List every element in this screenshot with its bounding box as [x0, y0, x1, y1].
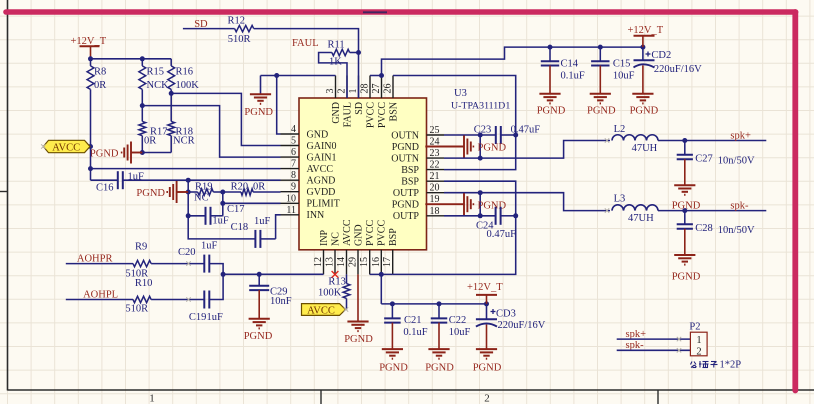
svg-text:PGND: PGND: [244, 107, 273, 118]
svg-text:1: 1: [149, 393, 155, 404]
junction pin4 branch: [274, 73, 279, 78]
svg-text:10n/50V: 10n/50V: [718, 225, 755, 236]
svg-text:L2: L2: [614, 124, 626, 135]
svg-text:1: 1: [348, 89, 359, 94]
svg-text:100K: 100K: [318, 288, 342, 299]
svg-text:9: 9: [291, 182, 296, 193]
value 0.47uF (C23): [511, 125, 541, 136]
wire C23 right: [501, 134, 516, 136]
svg-text:510R: 510R: [228, 34, 251, 45]
svg-text:PVCC: PVCC: [365, 102, 376, 128]
svg-text:PVCC: PVCC: [377, 102, 388, 128]
capacitor C20: [204, 255, 209, 273]
svg-text:AVCC: AVCC: [52, 143, 80, 154]
op-amp/amplifier IC U3 body: [299, 98, 427, 250]
capacitor C24: [496, 207, 501, 225]
label PGND (INN net): [136, 188, 165, 199]
junction OUTN-C23 left: [478, 133, 483, 138]
svg-text:C14: C14: [561, 58, 579, 69]
wire FAUL to pin 2: [319, 53, 347, 99]
svg-text:PGND: PGND: [473, 363, 502, 374]
wire BSN: [393, 76, 516, 170]
junction C21: [390, 301, 395, 306]
label CD3: [496, 309, 516, 320]
no-connect X on pin 13: [332, 271, 339, 278]
junction R17 bottom: [140, 150, 145, 155]
svg-text:C18: C18: [231, 222, 249, 233]
svg-text:R16: R16: [176, 67, 194, 78]
svg-text:+12V_T: +12V_T: [467, 282, 503, 293]
svg-text:0R: 0R: [144, 136, 156, 147]
IC U3 top pins 3,2,1,28,27,26 (stubs, numbers, names): [325, 76, 399, 129]
wire PVCC riser: [380, 274, 382, 304]
svg-text:AGND: AGND: [307, 176, 336, 187]
label PGND (R17 net): [90, 148, 119, 159]
net label FAUL: [292, 38, 319, 49]
svg-text:CD2: CD2: [651, 50, 671, 61]
capacitor C14: [541, 47, 559, 65]
value 10uF (C15): [613, 70, 635, 81]
resistor R10: [133, 296, 204, 302]
wire C16 to pin 8: [123, 179, 281, 181]
svg-text:R15: R15: [147, 67, 165, 78]
value 47UH (L2): [632, 143, 658, 154]
svg-text:21: 21: [430, 171, 440, 182]
wire INN column: [188, 180, 255, 239]
svg-text:BSP: BSP: [388, 228, 399, 246]
svg-text:GND: GND: [307, 129, 329, 140]
junction C28 tap: [682, 208, 687, 213]
wire OUTP pin18 to C24: [444, 215, 496, 217]
capacitor C27: [677, 141, 693, 160]
svg-text:C16: C16: [96, 182, 114, 193]
junction R16 bottom: [169, 91, 174, 96]
wire R11 right to SD net: [350, 52, 359, 54]
svg-text:5: 5: [291, 136, 296, 147]
ground PGND sideways (pin 24): [425, 136, 474, 158]
value 0R (R8): [94, 80, 106, 91]
wire OUTN pin 25 to C23: [444, 134, 496, 136]
label PGND (pin 19): [478, 200, 507, 211]
wire to pin 10: [223, 202, 281, 204]
svg-text:0.1uF: 0.1uF: [561, 70, 585, 81]
value 0.1uF (C21): [403, 327, 427, 338]
svg-text:SD: SD: [354, 102, 365, 115]
svg-text:spk-: spk-: [730, 200, 749, 211]
svg-text:OUTN: OUTN: [391, 130, 419, 141]
svg-text:C20: C20: [178, 247, 196, 258]
capacitor C28: [677, 211, 693, 229]
value 1uF (C17): [212, 215, 229, 226]
resistor R13: [343, 274, 350, 309]
resistor R20: [223, 189, 281, 195]
svg-text:0R: 0R: [94, 80, 106, 91]
label PGND (CD2): [630, 106, 659, 117]
label PGND (C22): [425, 363, 454, 374]
label PGND (pin 24): [478, 143, 507, 154]
wire C20 to input node: [209, 264, 223, 275]
value NCK (R15): [147, 80, 170, 91]
wire GAIN0 net to pin 5: [171, 93, 280, 145]
svg-text:10: 10: [286, 193, 296, 204]
value 220uF/16V (CD2): [654, 64, 702, 75]
wire SD left segment: [183, 28, 235, 30]
resistor R17: [139, 121, 146, 152]
resistor R11: [332, 49, 350, 55]
junction C27 tap: [682, 138, 687, 143]
svg-text:1uF: 1uF: [212, 215, 229, 226]
svg-text:PGND: PGND: [478, 200, 507, 211]
connector P2 body: [690, 332, 707, 356]
label R16: [176, 67, 194, 78]
IC U3 left pins 4-11 (stubs, numbers, names): [281, 124, 340, 221]
svg-text:7: 7: [291, 159, 296, 170]
label C28: [695, 223, 713, 234]
svg-text:NCR: NCR: [173, 136, 195, 147]
net label SD: [194, 19, 208, 30]
svg-text:U3: U3: [454, 88, 467, 99]
label C29: [270, 287, 288, 298]
label PGND (C28): [672, 272, 701, 283]
label PGND (pin 29): [344, 334, 373, 345]
svg-text:20: 20: [430, 183, 440, 194]
svg-text:13: 13: [325, 257, 336, 267]
capacitor CD3 (electrolytic): [476, 304, 497, 327]
off-grid mark (R10-C19): [186, 297, 190, 301]
svg-text:47UH: 47UH: [632, 143, 658, 154]
resistor R15: [139, 59, 146, 122]
svg-text:C21: C21: [404, 315, 422, 326]
value 47UH (L3): [628, 213, 654, 224]
IC U3 designator: [454, 88, 467, 99]
junction C23-BSN: [513, 133, 518, 138]
capacitor C18: [255, 230, 275, 248]
svg-text:OUTN: OUTN: [391, 154, 419, 165]
ground PGND (CD2): [632, 65, 653, 103]
label PGND (CD3): [473, 363, 502, 374]
capacitor C19: [204, 291, 209, 309]
svg-text:PGND: PGND: [537, 106, 566, 117]
svg-text:1uF: 1uF: [254, 216, 271, 227]
value NC (R19): [194, 193, 209, 204]
svg-text:R10: R10: [135, 278, 153, 289]
wire L2 to spk+: [658, 140, 766, 142]
svg-text:1uF: 1uF: [201, 241, 218, 252]
label PGND (C27): [672, 201, 701, 212]
label R9: [135, 242, 147, 253]
junction AGND column: [186, 178, 191, 183]
value 0R (R20): [253, 181, 265, 192]
wire GAIN1 net to pin 6: [142, 106, 280, 158]
svg-text:28: 28: [360, 84, 371, 94]
svg-text:spk+: spk+: [730, 131, 751, 142]
ground PGND (C14): [539, 66, 560, 104]
capacitor C16: [118, 171, 123, 189]
svg-text:PLIMIT: PLIMIT: [307, 199, 340, 210]
inductor L2: [612, 135, 658, 141]
svg-text:INP: INP: [319, 229, 330, 246]
svg-text:PGND: PGND: [478, 143, 507, 154]
svg-text:14: 14: [336, 257, 347, 267]
value 1K (R11): [329, 57, 342, 68]
svg-text:10uF: 10uF: [613, 70, 635, 81]
label R19: [195, 181, 213, 192]
power port +12V_T (left): [70, 36, 106, 59]
wire SD to pin 1: [254, 29, 359, 98]
svg-text:PVCC: PVCC: [365, 220, 376, 246]
svg-text:220uF/16V: 220uF/16V: [498, 320, 546, 331]
ground PGND (C28): [674, 229, 695, 265]
svg-text:PGND: PGND: [392, 200, 419, 211]
value 1uF (C19): [207, 312, 224, 323]
IC U3 part number U-TPA3111D1: [451, 101, 510, 112]
value 10n/50V (C28): [718, 225, 755, 236]
svg-text:18: 18: [430, 206, 440, 217]
svg-text:10nF: 10nF: [270, 296, 292, 307]
junction C29 tap: [257, 272, 262, 277]
ground PGND (pin 29): [347, 274, 368, 331]
svg-text:4: 4: [291, 124, 296, 135]
wire PVCC bypass rail: [381, 303, 486, 305]
svg-text:R19: R19: [195, 181, 213, 192]
wire C19 to input node: [209, 274, 223, 299]
svg-text:BSN: BSN: [388, 102, 399, 121]
svg-text:PGND: PGND: [425, 363, 454, 374]
junction C15 top: [598, 45, 603, 50]
junction CD2 top: [640, 45, 645, 50]
wire spk+ to P2 pin 1: [617, 338, 691, 340]
svg-text:26: 26: [383, 84, 394, 94]
ground PGND (pins 3,4): [250, 76, 271, 104]
svg-text:C19: C19: [189, 312, 207, 323]
svg-text:PGND: PGND: [90, 148, 119, 159]
svg-text:15: 15: [359, 257, 370, 267]
value 0.47uF (C24): [487, 229, 517, 240]
wire C24 right: [501, 215, 516, 217]
svg-text:11: 11: [286, 205, 296, 216]
label R15: [147, 67, 165, 78]
junction R15 top: [140, 56, 145, 61]
svg-text:NC: NC: [194, 193, 209, 204]
resistor R12: [235, 25, 254, 31]
wire OUTN tie 25-23: [479, 135, 481, 158]
svg-text:2: 2: [696, 346, 701, 357]
value 0.1uF (C14): [561, 70, 585, 81]
svg-text:FAUL: FAUL: [342, 102, 353, 127]
capacitor C21: [384, 304, 401, 323]
svg-text:2: 2: [484, 393, 490, 404]
ground PGND sideways (INN net): [166, 181, 188, 203]
junction OUTP-C24 branch: [478, 190, 483, 195]
power port +12V_T (top right): [627, 25, 663, 47]
svg-text:C27: C27: [695, 154, 713, 165]
value 510R (R9): [125, 268, 148, 279]
wire fragment over top bar: [363, 11, 387, 13]
svg-text:R9: R9: [135, 242, 147, 253]
label PGND (C14): [537, 106, 566, 117]
junction C24-BSP: [513, 213, 518, 218]
svg-text:6: 6: [291, 147, 296, 158]
wire input node to pin 12: [223, 273, 323, 275]
svg-text:PGND: PGND: [344, 334, 373, 345]
label C14: [561, 58, 579, 69]
svg-text:22: 22: [430, 160, 440, 171]
label C20: [178, 247, 196, 258]
wire OUTN to L2: [444, 141, 610, 159]
svg-text:29: 29: [348, 257, 359, 267]
net label AOHPR: [77, 254, 113, 265]
wire OUTP tie 20-18: [479, 193, 481, 216]
net label AOHPL: [83, 289, 118, 300]
ground PGND sideways (R17 net): [121, 142, 143, 164]
svg-text:INN: INN: [307, 210, 325, 221]
IC U3 bottom pins 12,13,14,29,15,16,17 (stubs, numbers, names): [313, 219, 399, 274]
label C21: [404, 315, 422, 326]
svg-text:PVCC: PVCC: [377, 220, 388, 246]
junction CD3: [484, 301, 489, 306]
wire AVCC to pin 7: [91, 168, 281, 170]
value 10uF (C22): [449, 327, 471, 338]
svg-text:1K: 1K: [329, 57, 342, 68]
label PGND (C29): [244, 331, 273, 342]
junction input node: [221, 272, 226, 277]
ground PGND sideways (pin 19): [425, 193, 474, 215]
label C18: [231, 222, 249, 233]
value 510R (R10): [125, 304, 148, 315]
capacitor C22: [431, 304, 448, 323]
wire AOHPL: [66, 299, 133, 301]
label C19: [189, 312, 207, 323]
svg-text:C15: C15: [613, 58, 631, 69]
svg-text:P2: P2: [689, 322, 700, 333]
svg-text:16: 16: [371, 257, 382, 267]
label L2: [614, 124, 626, 135]
junction C14 top: [548, 45, 553, 50]
net label spk-: [730, 200, 749, 211]
svg-text:NC: NC: [330, 232, 341, 246]
svg-text:R12: R12: [228, 15, 246, 26]
net label spk- (P2): [626, 340, 645, 351]
value 1uF (C18): [254, 216, 271, 227]
junction pin16: [379, 272, 384, 277]
svg-text:PGND: PGND: [630, 106, 659, 117]
resistor R19: [188, 189, 223, 195]
capacitor C29: [249, 274, 269, 290]
svg-text:C22: C22: [449, 315, 467, 326]
junction AVCC flag: [88, 144, 93, 149]
wire +12V rail left: [91, 58, 172, 60]
label PGND (C21): [379, 363, 408, 374]
junction R19 left: [186, 190, 191, 195]
wire PVCC pins 15-17 tie: [370, 273, 393, 275]
P2 pin number 2: [696, 346, 701, 357]
value 10n/50V (C27): [718, 155, 755, 166]
ground PGND (C15): [590, 66, 611, 104]
svg-text:1: 1: [696, 335, 701, 346]
svg-text:8: 8: [291, 170, 296, 181]
wire AOHPR: [66, 263, 133, 265]
svg-text:3: 3: [325, 89, 336, 94]
wire BSP pin21 to C24 right: [444, 181, 516, 216]
off-grid mark (L3 left): [605, 208, 609, 212]
label R12: [228, 15, 246, 26]
junction SD/R11: [356, 50, 361, 55]
svg-text:R8: R8: [94, 67, 106, 78]
svg-text:1uF: 1uF: [207, 312, 224, 323]
wire OUTP pin20 to L3: [444, 193, 610, 211]
label R20: [231, 181, 249, 192]
svg-text:220uF/16V: 220uF/16V: [654, 64, 702, 75]
svg-text:17: 17: [382, 257, 393, 267]
junction OUTN row23: [478, 156, 483, 161]
resistor R8: [87, 59, 94, 147]
net label spk+ (P2): [626, 329, 647, 340]
svg-text:10uF: 10uF: [449, 327, 471, 338]
off-grid marks (P2 pins): [677, 337, 681, 353]
value 1uF (C20): [201, 241, 218, 252]
wire to C16: [91, 179, 118, 181]
inductor L3: [612, 205, 658, 211]
P2 pin number 1: [696, 335, 701, 346]
svg-text:AVCC: AVCC: [307, 306, 335, 317]
junction C17 left: [186, 213, 191, 218]
junction R19-R20 node: [220, 190, 225, 195]
label C24: [476, 221, 494, 232]
wire spk- to P2 pin 2: [617, 349, 691, 351]
label C22: [449, 315, 467, 326]
svg-text:+12V_T: +12V_T: [627, 25, 663, 36]
svg-text:AVCC: AVCC: [307, 164, 334, 175]
value NCR (R18): [173, 136, 195, 147]
wire R17-R18 bottom tie: [142, 152, 171, 154]
power port +12V_T (bottom): [467, 282, 503, 304]
value 510R (R12): [228, 34, 251, 45]
capacitor CD2 (electrolytic): [634, 47, 655, 67]
svg-text:100K: 100K: [176, 80, 200, 91]
wire PVCC to +12V rail: [382, 47, 644, 75]
junction R15 bottom: [140, 103, 145, 108]
label P2: [689, 322, 700, 333]
svg-text:PGND: PGND: [392, 142, 419, 153]
wire PGND rail to pin 3: [261, 75, 336, 77]
net label spk+: [730, 131, 751, 142]
label CD2: [651, 50, 671, 61]
label C15: [613, 58, 631, 69]
svg-text:0R: 0R: [253, 181, 265, 192]
svg-text:PGND: PGND: [587, 106, 616, 117]
ground PGND (C22): [428, 323, 449, 359]
svg-text:GAIN0: GAIN0: [307, 141, 337, 152]
resistor R16: [168, 59, 175, 122]
value 100K (R13): [318, 288, 342, 299]
junction C22: [437, 301, 442, 306]
value 10nF (C29): [270, 296, 292, 307]
P2 description 公端子1*2P: [691, 359, 742, 370]
junction OUTP row18: [478, 213, 483, 218]
svg-text:OUTP: OUTP: [393, 211, 420, 222]
svg-text:C17: C17: [227, 204, 245, 215]
resistor R9: [133, 260, 204, 266]
svg-text:GND: GND: [331, 102, 342, 124]
label R13: [328, 277, 346, 288]
capacitor C17: [188, 207, 223, 225]
wire AVCC column: [90, 147, 92, 181]
label PGND (pins 3,4): [244, 107, 273, 118]
label R8: [94, 67, 106, 78]
off-grid mark (L2 left): [605, 138, 609, 142]
junction PLIMIT branch: [220, 201, 225, 206]
svg-text:FAUL: FAUL: [292, 38, 319, 49]
